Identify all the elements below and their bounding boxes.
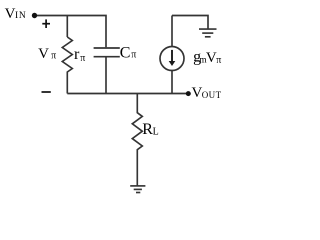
svg-text:V: V [5,6,16,22]
svg-text:OUT: OUT [202,90,222,100]
svg-text:L: L [153,127,159,138]
svg-text:π: π [131,50,136,61]
svg-text:r: r [74,46,80,63]
svg-text:π: π [80,53,85,64]
svg-text:R: R [142,121,153,138]
svg-text:IN: IN [15,11,26,21]
svg-text:π: π [51,51,56,62]
svg-text:C: C [120,44,131,61]
svg-text:π: π [216,55,221,66]
svg-text:V: V [38,46,49,62]
